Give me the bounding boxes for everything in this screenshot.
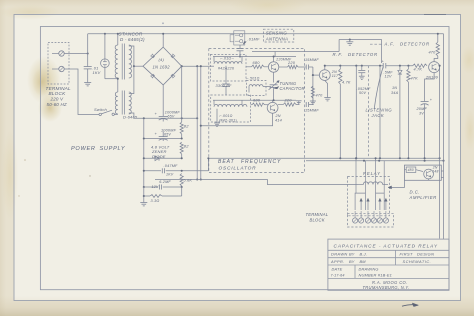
svg-text:15MMF: 15MMF <box>305 58 319 62</box>
wire T1 secondary top to secondary bus <box>129 46 134 66</box>
detector bus wire right segment <box>386 65 413 67</box>
oscillator 1 coil L1 dashed box <box>211 54 247 81</box>
junction chain top right <box>181 117 183 119</box>
svg-text:2N: 2N <box>275 114 281 118</box>
wire dc amp to right rail <box>441 170 443 172</box>
left filter rail wire <box>143 118 145 187</box>
label .05MF 50V <box>357 87 372 95</box>
svg-text:1KV: 1KV <box>93 70 101 75</box>
junction ground rail <box>349 38 351 40</box>
junction feed at relay bus <box>196 178 198 180</box>
listening jack curve <box>374 67 383 110</box>
AC top rail wire <box>88 33 444 35</box>
svg-text:65V: 65V <box>168 115 175 119</box>
bus A2 junctions <box>363 160 445 162</box>
label TERMINAL BLOCK relay <box>306 212 329 222</box>
svg-text:82: 82 <box>184 144 189 149</box>
wire Q1 collector rail up to detector supply line <box>274 52 276 57</box>
label .01MF with pointer <box>243 37 260 45</box>
wire L2 to tuning cap node <box>263 86 271 88</box>
wire L1 left end up to top rail <box>213 57 215 62</box>
label TERMINAL BLOCK 220V 50-60HZ <box>46 86 71 107</box>
dash leader before A.F. label <box>370 43 383 45</box>
label 6.2MF 12V <box>152 180 172 189</box>
label STANCOR D-6465 (2) <box>119 32 146 43</box>
svg-text:DETECTOR: DETECTOR <box>348 52 378 57</box>
svg-text:POWER: POWER <box>71 146 96 152</box>
detector bus wire left segment <box>325 65 383 67</box>
title row date / drawing number <box>331 266 393 277</box>
svg-text:SENSING: SENSING <box>266 31 288 36</box>
wire detector input join vertical <box>312 67 314 105</box>
svg-text:DETECTOR: DETECTOR <box>400 42 430 47</box>
label BEAT FREQUENCY OSCILLATOR <box>218 159 281 172</box>
oscillator 3 coil L3 dashed box <box>211 95 251 122</box>
transistor Q2 2N414 <box>267 102 278 113</box>
capacitor C4 .047MF 1KV <box>161 168 163 173</box>
relay terminal screws <box>353 211 389 223</box>
capacitor C1 .01 1KV <box>84 66 92 68</box>
svg-text:3300 PF: 3300 PF <box>216 83 233 88</box>
bottom rung wire <box>162 195 182 197</box>
svg-text:148: 148 <box>432 170 438 174</box>
filter ladder top rung wire <box>144 117 197 119</box>
transformer T1 STANCOR D-6465 primary winding <box>115 45 118 78</box>
svg-text:12V: 12V <box>152 185 159 189</box>
label 1000MF 65V <box>165 110 181 118</box>
wire Q3 emitter down <box>325 81 328 98</box>
label .5MF 12V <box>384 70 394 78</box>
label 1000MF 65V second <box>161 129 177 137</box>
wire L3 left to ground <box>216 109 218 123</box>
svg-text:(#42-301): (#42-301) <box>219 119 237 123</box>
svg-text:220: 220 <box>287 60 296 65</box>
svg-text:R.F.: R.F. <box>333 52 344 57</box>
title row company <box>363 280 410 290</box>
junction B+ feed node <box>196 65 198 67</box>
svg-text:1KV: 1KV <box>166 173 174 177</box>
svg-text:4.7K: 4.7K <box>342 81 351 85</box>
svg-text:65V: 65V <box>164 133 171 137</box>
wire bridge - output down <box>162 85 164 117</box>
svg-text:JACK: JACK <box>371 113 385 118</box>
wire node A down to capacitor C1 <box>87 54 89 67</box>
tuning capacitor C10 variable <box>269 81 280 90</box>
wire C6 to oscillator 1 tank <box>239 51 241 57</box>
wire R8 to ground stub <box>296 104 299 106</box>
transformer T2 core <box>122 91 124 115</box>
bridge diode D3 <box>151 74 155 78</box>
resistor R1 82 <box>180 122 183 134</box>
rung3 wire <box>144 157 182 159</box>
capacitor C2 1000MF 65V electrolytic <box>155 111 168 122</box>
bus A2 wire (second return) <box>306 160 444 162</box>
resistor R10 4.7K load <box>339 65 342 84</box>
wire Q1 emitter to tuning capacitor <box>273 72 275 82</box>
resistor R11 47K <box>407 65 410 159</box>
wire T2 secondary bottom to filter top <box>129 113 144 118</box>
label D.C. AMPLIFIER <box>409 189 437 200</box>
svg-text:BLOCK: BLOCK <box>49 91 67 96</box>
wire Q4 collector to resistor R13 <box>434 56 438 62</box>
wire lamp to transformer primary <box>105 78 118 80</box>
junction chain feed <box>196 117 198 119</box>
svg-text:ANTENNA: ANTENNA <box>265 37 288 42</box>
svg-text:3.3Ω: 3.3Ω <box>151 199 160 203</box>
junction node A <box>87 52 89 54</box>
svg-text:BEAT: BEAT <box>218 159 235 165</box>
wire ground rail down to detector bus <box>381 40 383 64</box>
svg-text:15MMF: 15MMF <box>305 108 319 112</box>
wire bridge top corner to AC rail <box>162 34 164 47</box>
bus A junctions <box>339 157 440 159</box>
svg-text:5.6K: 5.6K <box>183 178 192 183</box>
label 2N 414 <box>275 114 282 123</box>
wire L2 left down <box>248 87 250 93</box>
wire supply line up to ground rail <box>338 40 340 52</box>
capacitor C5 6.2MF 12V <box>158 185 160 190</box>
oscillator 2 coil L2 dashed box <box>247 81 267 96</box>
wire lamp branch upper <box>104 34 106 59</box>
svg-text:BY: BY <box>349 259 355 264</box>
antenna connector J1 <box>230 31 245 45</box>
svg-text:NUMBER #1B-E1: NUMBER #1B-E1 <box>359 273 393 278</box>
label R.F. DETECTOR <box>333 52 378 57</box>
inductor L3 winding <box>214 105 247 107</box>
oscillator 2 top rail wire <box>213 99 296 101</box>
resistor R5 680 base osc1 <box>246 65 268 68</box>
wire R1 to rung2 <box>181 134 183 139</box>
svg-text:3V: 3V <box>419 111 424 115</box>
svg-text:D-6465: D-6465 <box>123 115 138 120</box>
junction chain top left <box>143 117 145 119</box>
wire Q4 emitter to capacitor C14 <box>425 73 435 102</box>
wire right rail bottom <box>181 187 183 196</box>
inductor L2 winding <box>249 85 263 87</box>
wire Q2 collector up <box>272 100 274 102</box>
wire L1 tap down <box>225 66 227 84</box>
wire T1 primary bottom to T2 primary top <box>117 78 119 92</box>
svg-text:414: 414 <box>275 119 282 123</box>
capacitor C3 1000MF 65V electrolytic <box>155 131 168 141</box>
dc amplifier box <box>405 165 442 180</box>
svg-text:OSCILLATOR: OSCILLATOR <box>219 166 257 172</box>
relay coil <box>358 182 389 185</box>
pen mark arrow below border <box>402 303 419 307</box>
svg-text:1N: 1N <box>392 86 397 90</box>
junction T1 primary top <box>117 33 119 35</box>
resistor R13 470 collector <box>436 42 439 56</box>
svg-text:220 V: 220 V <box>50 97 65 102</box>
svg-text:LISTENING: LISTENING <box>366 108 393 113</box>
right rail wire from AC rail down <box>443 34 445 239</box>
relay terminal block dashed box <box>347 213 393 227</box>
junction antenna tap <box>239 55 241 57</box>
svg-text:AMPLIFIER: AMPLIFIER <box>409 195 437 200</box>
svg-text:DIODE: DIODE <box>152 154 166 159</box>
bridge diode D2 <box>171 54 175 58</box>
coupling capacitor C11 15MMF osc2 output <box>296 102 309 107</box>
label LISTENING JACK <box>366 108 393 118</box>
wire bridge B+ into L1 <box>209 65 215 67</box>
wire bridge + output right <box>182 65 209 67</box>
svg-text:7-17-64: 7-17-64 <box>331 274 345 278</box>
svg-text:FIRST: FIRST <box>400 251 413 256</box>
svg-text:12V: 12V <box>385 74 393 78</box>
ground L3 <box>214 122 220 124</box>
svg-text:DRAWN: DRAWN <box>331 252 348 257</box>
junction emitter return at feed <box>200 125 202 127</box>
svg-text:34A: 34A <box>391 91 399 95</box>
svg-text:50-60 HZ: 50-60 HZ <box>47 102 67 107</box>
wire chain bottom left <box>143 187 145 203</box>
label 1N 34A <box>391 86 399 95</box>
capacitor C6 .01MF <box>237 48 244 50</box>
wire C1 to ground <box>87 69 89 83</box>
transistor Q3 2N117 RF detector <box>319 70 330 81</box>
junction secondary bus <box>133 65 135 67</box>
svg-text:4.7K: 4.7K <box>414 68 423 72</box>
resistor R4 3.3 <box>150 195 162 198</box>
wire L1 right end up to top rail <box>241 57 243 62</box>
wire rung4 up to bus A <box>207 158 209 171</box>
wire tuning cap to oscillator 2 <box>273 87 275 100</box>
transistor Q5 2N148 dc amplifier <box>424 169 434 179</box>
ground R9 <box>310 100 316 102</box>
label TUNING CAPACITOR <box>274 81 305 91</box>
diode CR2 1N34A <box>398 65 402 159</box>
resistor R7 680 base osc2 <box>251 103 269 106</box>
capacitor C7 3300PF <box>222 83 230 85</box>
wire node A up to AC rail <box>87 34 89 54</box>
ground below C1 <box>84 82 91 84</box>
ground osc2 collector network <box>296 101 302 105</box>
relay moving contact arrows <box>360 198 387 210</box>
relay feed wires from buses <box>355 157 384 193</box>
wire Q3 collector up to detector bus <box>324 66 326 70</box>
wire R10 down to bus A <box>339 84 341 158</box>
svg-text:CAPACITOR: CAPACITOR <box>280 86 305 91</box>
wire R2 to rung3 <box>181 154 183 158</box>
svg-text:680: 680 <box>253 60 261 65</box>
switch S1 <box>99 110 114 115</box>
label (4) 1N 1692 <box>153 57 171 70</box>
bridge diode D4 <box>171 74 175 78</box>
transformer T2 STANCOR D-6465 primary winding <box>115 92 117 114</box>
label SENSING ANTENNA in dashed box <box>263 29 293 42</box>
resistor R8 220 collector osc2 <box>278 103 296 106</box>
svg-text:D - 6465: D - 6465 <box>120 37 139 42</box>
label 20MF 3V <box>416 107 428 115</box>
wire from TB1 terminal 1 to node A <box>64 53 88 55</box>
relay K1 dashed enclosure <box>348 177 390 216</box>
svg-text:.01MF: .01MF <box>248 37 260 42</box>
label .047MF 1KV <box>164 164 179 176</box>
junction lamp top <box>104 33 106 35</box>
svg-text:DRAWING: DRAWING <box>359 266 379 271</box>
relay supply bus stepped wire <box>155 180 358 185</box>
transformer T2 secondary winding <box>129 92 131 114</box>
svg-text:⌐.501Ω: ⌐.501Ω <box>247 77 260 81</box>
svg-text:SUPPLY: SUPPLY <box>100 146 126 152</box>
beat frequency oscillator dashed enclosure <box>209 49 305 173</box>
svg-text:D.C.: D.C. <box>410 189 421 194</box>
svg-text:⌐.01Ω¬: ⌐.01Ω¬ <box>221 57 234 61</box>
svg-text:BY: BY <box>349 252 355 257</box>
wire tap down left of coupling cap <box>379 65 381 159</box>
rung5 wire <box>144 186 158 188</box>
label 4.8 VOLT ZENER DIODE <box>151 144 170 159</box>
wire switch to transformer T2 primary <box>114 114 117 116</box>
svg-text:TERMINAL: TERMINAL <box>306 212 329 217</box>
wire join to Q3 base <box>313 74 320 76</box>
ground on detector rail <box>346 40 353 46</box>
terminal block TB1 (220V mains) <box>48 43 69 85</box>
wire R9 to ground <box>312 98 314 101</box>
bridge diode D1 <box>151 54 155 58</box>
wire R6 to coupling cap <box>298 66 306 68</box>
svg-text:117: 117 <box>332 74 339 78</box>
title block frame <box>328 239 449 290</box>
resistor R2 82 <box>180 142 183 154</box>
label 2N 117 <box>331 70 339 78</box>
wire C7 down to osc2 <box>225 86 227 95</box>
label A.F. DETECTOR <box>384 42 430 47</box>
junction bridge AC top <box>162 33 164 35</box>
svg-text:480: 480 <box>408 168 414 172</box>
svg-text:220: 220 <box>284 98 293 103</box>
svg-text:A.F.: A.F. <box>384 42 396 47</box>
svg-text:47K: 47K <box>411 77 419 81</box>
svg-text:BLOCK: BLOCK <box>310 218 325 223</box>
svg-text:Switch: Switch <box>94 107 108 112</box>
bus A wire (detector return) <box>208 157 439 159</box>
inductor L1 winding <box>214 62 242 64</box>
wire lamp branch lower <box>104 67 106 78</box>
bridge rectifier (4) 1N1692 diamond <box>143 47 182 85</box>
detector supply wire y51 <box>252 51 339 53</box>
wire inside dc amp <box>405 170 429 181</box>
svg-text:TERMINAL: TERMINAL <box>46 86 71 91</box>
wire tap down to C12 <box>355 65 357 159</box>
title row drawn by <box>331 251 434 256</box>
svg-text:FREQUENCY: FREQUENCY <box>241 159 281 165</box>
relay contact staple 1 <box>355 193 365 210</box>
wire antenna down to capacitor C6 <box>239 45 241 49</box>
wire TB1 terminal 2 down-left <box>64 69 99 115</box>
junction primaries <box>117 78 119 80</box>
svg-text:#42A226: #42A226 <box>218 67 235 71</box>
svg-text:STANCOR: STANCOR <box>119 32 143 37</box>
neon lamp DS1 <box>101 59 110 68</box>
svg-text:TRUMANSBURG, N.Y.: TRUMANSBURG, N.Y. <box>363 285 410 290</box>
junction bus A left stub <box>207 157 209 159</box>
svg-text:B.J.: B.J. <box>360 252 368 257</box>
label 2N 148 <box>432 166 439 174</box>
rung4 wire <box>144 170 161 172</box>
oscillator 1 top rail wire <box>213 56 296 58</box>
svg-text:1N 1692: 1N 1692 <box>153 65 171 70</box>
transistor Q4 2N109 AF detector <box>429 62 440 73</box>
resistor R3 5.6K <box>180 174 183 187</box>
ground Q3 emitter <box>324 97 330 99</box>
retrace ink on top border <box>424 14 446 16</box>
wire osc2 rail down from osc1 <box>273 99 275 101</box>
wire secondary bus to bridge left corner <box>134 65 143 67</box>
svg-text:470: 470 <box>429 51 437 55</box>
svg-text:680: 680 <box>253 98 261 103</box>
svg-text:BM: BM <box>360 259 367 264</box>
junction bridge + corner <box>181 65 183 67</box>
svg-text:470: 470 <box>316 94 324 98</box>
svg-text:.047MF: .047MF <box>164 164 179 168</box>
title row appr by <box>330 259 431 264</box>
resistor R14 480 boxed <box>406 167 416 172</box>
wire secondary bus down to T2 secondary <box>129 66 134 93</box>
wire C11 to detector join <box>309 104 313 106</box>
resistor R9 470 bias <box>311 84 314 98</box>
svg-text:50V: 50V <box>359 91 367 95</box>
resistor R6 220 collector osc1 <box>279 65 298 68</box>
svg-text:SCHEMATIC.: SCHEMATIC. <box>403 259 432 264</box>
wire dc amp to right rail 2 <box>441 177 443 179</box>
transformer T1 secondary winding <box>129 45 132 78</box>
capacitor C14 20MF 3V electrolytic <box>421 98 433 158</box>
junction second feed top <box>200 65 202 67</box>
wire C9 to detector join <box>309 66 313 68</box>
wire B+ feed down to relay bus <box>196 66 198 179</box>
wire T1 primary top to AC rail <box>117 34 119 45</box>
svg-text:6.2MF: 6.2MF <box>159 180 171 184</box>
relay contact staple 2 <box>376 193 385 210</box>
label POWER SUPPLY <box>71 146 126 152</box>
svg-text:⌐.001Ω: ⌐.001Ω <box>220 114 233 118</box>
wire second feed down to relay bus <box>200 66 202 179</box>
wire Q2 emitter return <box>201 113 273 126</box>
svg-text:(2): (2) <box>139 37 145 42</box>
svg-text:82: 82 <box>184 124 189 129</box>
transformer T1 core <box>122 44 124 80</box>
wire dc amp output to relay with arrow <box>388 180 404 189</box>
wire L3 ends up <box>214 100 242 105</box>
wire Q1 collector to top rail <box>273 57 275 62</box>
ground rail wire <box>339 39 382 41</box>
svg-text:APPR.: APPR. <box>330 259 345 264</box>
svg-text:DATE: DATE <box>332 266 343 271</box>
capacitor C12 .05MF 50V with ground <box>358 65 365 80</box>
rung2 wire <box>144 138 182 140</box>
ground filter chain <box>140 202 147 204</box>
resistor R12 4.7K series <box>413 64 427 67</box>
transistor Q1 2N414 <box>268 62 278 72</box>
svg-text:CAPACITANCE - ACTUATED RELAY: CAPACITANCE - ACTUATED RELAY <box>334 243 438 248</box>
capacitor C13 .5MF 12V series <box>382 60 386 69</box>
svg-text:DESIGN: DESIGN <box>417 251 434 256</box>
right filter rail wire from bridge + corner <box>181 66 183 122</box>
junction second feed at relay bus <box>200 178 202 180</box>
svg-text:(4): (4) <box>159 57 165 62</box>
listening jack dashed insertion line <box>367 66 369 159</box>
right rail 2 wire <box>439 66 441 239</box>
wire R13 to AC rail <box>437 34 439 42</box>
zener diode CR1 4.8 volt <box>155 156 159 161</box>
coupling capacitor C9 15MMF osc1 output <box>305 65 307 70</box>
